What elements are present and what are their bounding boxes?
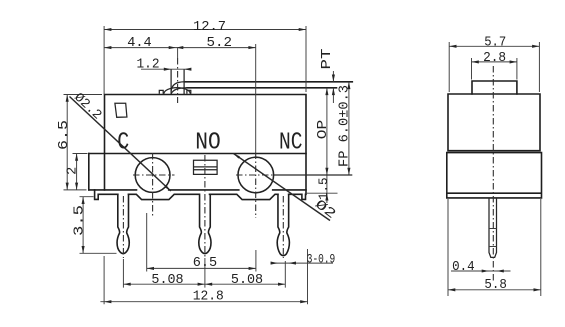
svg-text:6.5: 6.5 [193,256,217,271]
svg-text:2.8: 2.8 [483,51,506,66]
svg-text:4.4: 4.4 [127,36,151,51]
svg-text:5.08: 5.08 [231,273,263,288]
svg-text:1.2: 1.2 [137,57,160,72]
svg-text:PT: PT [320,49,335,70]
svg-text:3-0.9: 3-0.9 [307,253,336,267]
svg-text:0.4: 0.4 [452,260,475,275]
svg-text:6.5: 6.5 [57,120,72,150]
svg-text:5.7: 5.7 [484,35,506,50]
svg-text:1.5: 1.5 [316,178,331,201]
svg-text:C: C [117,130,129,157]
svg-text:12.8: 12.8 [193,289,224,304]
svg-text:5.08: 5.08 [151,273,183,288]
svg-text:Ø2: Ø2 [311,198,338,223]
svg-text:3.5: 3.5 [73,205,88,236]
svg-text:OP: OP [316,120,331,140]
svg-text:NO: NO [195,130,221,157]
svg-text:2: 2 [65,167,80,175]
svg-text:NC: NC [279,130,303,157]
svg-text:5.8: 5.8 [484,278,507,293]
svg-text:FP 6.0±0.3: FP 6.0±0.3 [336,85,352,167]
svg-text:12.7: 12.7 [193,20,226,35]
svg-text:5.2: 5.2 [207,36,233,51]
